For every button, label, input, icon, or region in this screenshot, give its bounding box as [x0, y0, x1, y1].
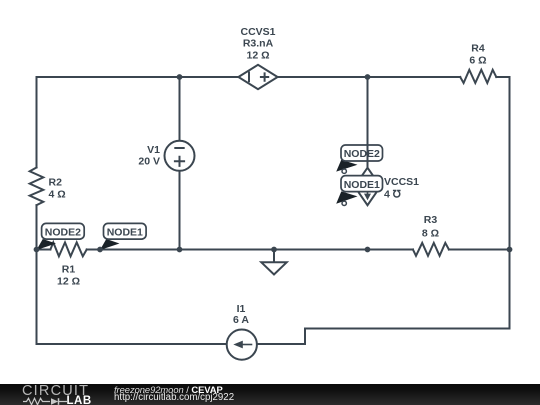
node NODE1 label box at VCCS [341, 176, 383, 192]
node dot mid VCCS [365, 247, 371, 253]
svg-text:12 Ω: 12 Ω [246, 49, 269, 61]
node dot mid V1 [177, 247, 183, 253]
ground [261, 262, 286, 274]
logo symbol [22, 397, 68, 405]
node dot top V1 [177, 74, 183, 80]
svg-text:R1: R1 [62, 263, 76, 275]
node NODE2 flag at VCCS [336, 160, 357, 172]
svg-text:20 V: 20 V [138, 156, 160, 168]
wire VCCS branch through box [367, 77, 369, 168]
svg-text:R2: R2 [49, 177, 63, 189]
wire middle horizontal [87, 249, 413, 251]
svg-text:NODE1: NODE1 [344, 179, 380, 191]
node dot mid R1 right [97, 247, 103, 253]
svg-text:CCVS1: CCVS1 [240, 26, 275, 38]
svg-text:NODE2: NODE2 [344, 148, 380, 160]
svg-text:12 Ω: 12 Ω [57, 275, 80, 287]
logo CIRCUIT [22, 383, 89, 399]
node NODE2 flag at R1 [37, 239, 57, 250]
node NODE1 flag at R1 [100, 239, 120, 250]
footer bar [0, 384, 540, 405]
node dot mid right [507, 247, 513, 253]
current source I1 [227, 330, 257, 360]
svg-text:6 Ω: 6 Ω [469, 54, 486, 66]
dependent source VCCS1 [355, 168, 381, 206]
resistor R4 [460, 70, 496, 83]
svg-text:V1: V1 [147, 144, 160, 156]
wire top-left horizontal [37, 76, 239, 78]
resistor R1 [50, 242, 86, 256]
node dot ground [271, 247, 277, 253]
resistor R3 [413, 243, 449, 256]
svg-text:VCCS1: VCCS1 [384, 176, 419, 188]
svg-text:4 ℧: 4 ℧ [384, 189, 402, 201]
wire left vertical below R2 [36, 205, 38, 344]
node NODE2 label box at VCCS [341, 145, 383, 161]
svg-text:R4: R4 [471, 43, 485, 55]
voltage source V1 [165, 141, 195, 171]
wire bottom right with step [258, 329, 510, 345]
resistor R2 [30, 168, 44, 206]
node dot top VCCS [365, 74, 371, 80]
footer line 2 [114, 392, 234, 403]
wire middle left lead [37, 249, 51, 251]
node dot mid left [34, 247, 40, 253]
VCCS control terminal circle upper [342, 169, 346, 173]
wire V1 branch bottom [179, 171, 181, 249]
wire R4 to right vertical [496, 77, 509, 329]
svg-text:8 Ω: 8 Ω [422, 227, 439, 239]
logo LAB [67, 395, 92, 405]
node NODE2 label box at R1 [42, 223, 85, 239]
svg-text:R3: R3 [424, 214, 438, 226]
svg-text:NODE2: NODE2 [45, 227, 81, 239]
dependent source CCVS1 [238, 65, 277, 89]
svg-text:NODE1: NODE1 [107, 227, 143, 239]
wire left vertical above R2 [36, 77, 38, 168]
wire bottom left [37, 343, 226, 345]
svg-text:6 A: 6 A [233, 314, 249, 326]
wire middle right lead [449, 249, 510, 251]
wire top-right horizontal [278, 76, 461, 78]
VCCS control terminal circle lower [342, 201, 346, 205]
svg-text:4 Ω: 4 Ω [49, 189, 66, 201]
node NODE1 label box at R1 [104, 223, 147, 239]
footer line 1 [114, 384, 223, 395]
wire ground stub [273, 250, 275, 263]
node NODE1 flag at VCCS [336, 191, 357, 203]
svg-text:R3.nA: R3.nA [243, 38, 274, 50]
wire V1 branch top [179, 77, 181, 140]
